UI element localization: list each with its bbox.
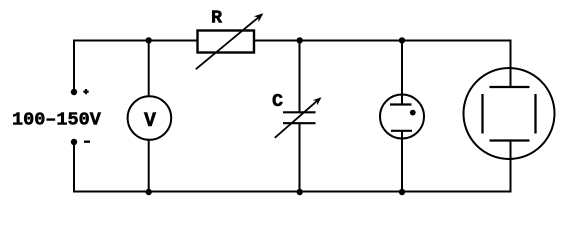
plus sign at positive terminal — [83, 89, 88, 94]
wire: capacitor branch upper — [299, 41, 301, 113]
neon lamp (circle, two electrodes, gas dot) — [380, 95, 424, 139]
wire: neon lamp branch lower — [401, 131, 403, 193]
capacitor C (variable, plates with arrow) — [275, 97, 322, 138]
voltmeter V (circle meter) — [128, 96, 172, 140]
svg-text:V: V — [144, 110, 156, 133]
wire: neon lamp branch upper — [401, 41, 403, 106]
wire: top rail right segment — [254, 40, 512, 42]
junction: bottom rail / voltmeter branch — [146, 189, 152, 195]
wire: top rail left segment — [73, 40, 198, 42]
wire: voltmeter branch lower — [148, 140, 150, 193]
wire: capacitor branch lower — [299, 123, 301, 192]
wire: left branch upper segment — [73, 41, 75, 93]
junction: top rail / voltmeter branch — [146, 37, 152, 43]
battery positive terminal dot — [71, 89, 77, 95]
battery negative terminal dot — [71, 139, 77, 145]
junction: bottom rail / capacitor branch — [297, 189, 303, 195]
svg-text:R: R — [211, 8, 223, 29]
svg-text:C: C — [272, 91, 283, 112]
junction: top rail / capacitor branch — [297, 37, 303, 43]
wire: right drop from top rail to tube plate — [510, 41, 512, 88]
minus sign at negative terminal — [84, 140, 90, 142]
indicator tube (circle with square electrodes) — [464, 68, 555, 159]
resistor R (variable, box with arrow) — [196, 13, 263, 69]
wire: voltmeter branch upper — [148, 41, 150, 98]
wire: left branch lower segment — [73, 142, 75, 192]
junction: top rail / neon branch — [399, 37, 405, 43]
junction: bottom rail / neon branch — [399, 189, 405, 195]
wire: tube bottom lead — [510, 141, 512, 193]
svg-text:100–150V: 100–150V — [12, 110, 102, 131]
wire: bottom rail — [73, 191, 512, 193]
